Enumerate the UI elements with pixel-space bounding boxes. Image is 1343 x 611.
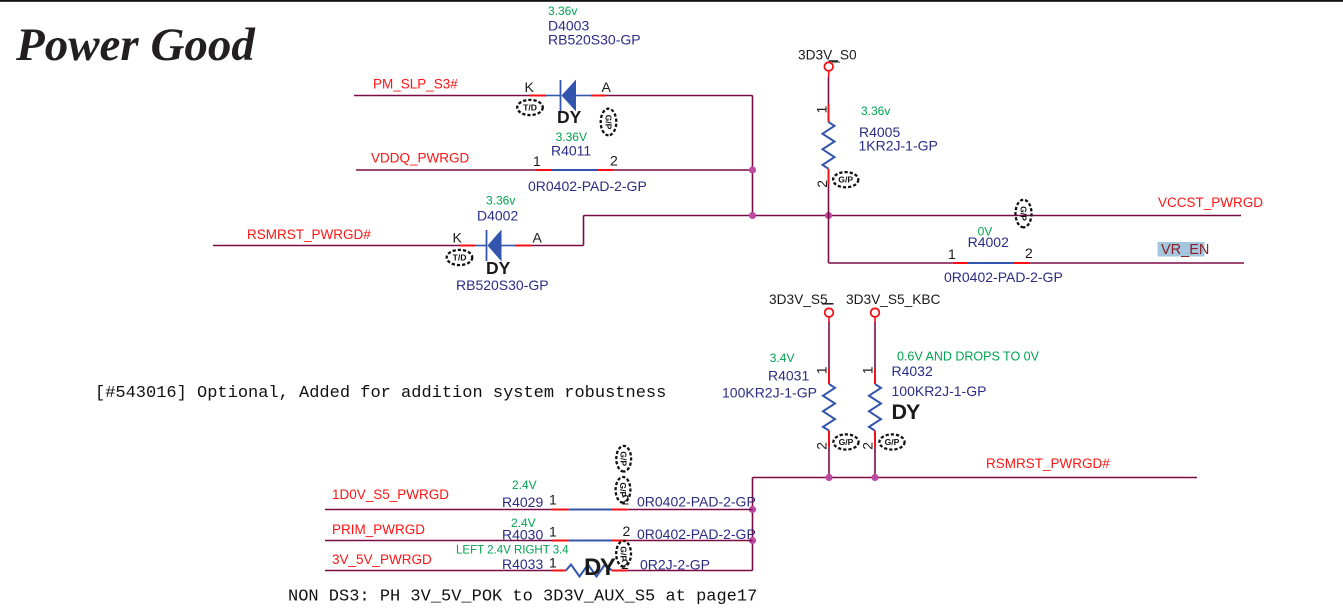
wire PRIM_PWRGD right [628,540,753,542]
svg-text:R4030: R4030 [502,527,543,543]
wire PM_SLP_S3# right segment [606,95,753,97]
wire VDDQ_PWRGD left segment [356,169,536,171]
diode D4002 [459,230,531,262]
svg-text:RB520S30-GP: RB520S30-GP [456,277,549,293]
resistor R4030 (0 ohm) [552,540,628,542]
svg-text:DY: DY [557,107,582,127]
svg-text:RSMRST_PWRGD#: RSMRST_PWRGD# [247,227,371,242]
svg-text:0.6V AND DROPS TO 0V: 0.6V AND DROPS TO 0V [897,350,1040,364]
svg-text:G/P: G/P [1019,206,1029,221]
svg-text:1: 1 [549,491,557,507]
svg-text:0R0402-PAD-2-GP: 0R0402-PAD-2-GP [637,526,756,542]
wire 1D0V_S5_PWRGD left [325,509,552,511]
resistor R4032 [869,369,881,447]
net label VR_EN highlighted [1158,242,1210,258]
svg-text:VCCST_PWRGD: VCCST_PWRGD [1158,195,1263,210]
svg-text:0R0402-PAD-2-GP: 0R0402-PAD-2-GP [528,178,647,194]
power symbol 3D3V_S5 [769,292,834,322]
svg-text:100KR2J-1-GP: 100KR2J-1-GP [892,383,987,399]
junction at VDDQ / vertical [749,166,756,173]
svg-text:100KR2J-1-GP: 100KR2J-1-GP [722,385,817,401]
svg-text:3V_5V_PWRGD: 3V_5V_PWRGD [332,552,432,567]
wire 1D0V_S5_PWRGD right [628,509,753,511]
resistor R4011 (0 ohm) [536,169,613,171]
svg-text:3D3V_S0: 3D3V_S0 [798,47,857,62]
svg-text:Power Good: Power Good [15,19,256,71]
wire VCCST_PWRGD horizontal [584,215,1242,217]
svg-text:G/P: G/P [619,451,629,466]
svg-text:3.36v: 3.36v [486,194,515,208]
svg-text:1: 1 [814,106,830,114]
svg-text:NON DS3: PH 3V_5V_POK to 3D3V_: NON DS3: PH 3V_5V_POK to 3D3V_AUX_S5 at … [288,588,757,607]
power symbol 3D3V_S5_KBC [846,292,940,322]
svg-text:1: 1 [860,366,876,374]
diode D4003 [530,80,606,112]
wire R4031 pin2 down to RSMRST node [828,447,830,478]
svg-text:1: 1 [533,153,541,169]
svg-text:2: 2 [860,442,876,450]
svg-text:G/P: G/P [838,175,853,185]
svg-text:3D3V_S5_KBC: 3D3V_S5_KBC [846,292,940,307]
junction at x=828 on VCCST wire [825,212,832,219]
svg-text:G/P: G/P [618,482,628,497]
resistor R4031 [823,369,835,447]
svg-text:T/D: T/D [523,103,537,113]
svg-text:0R2J-2-GP: 0R2J-2-GP [640,557,710,573]
resistor R4029 (0 ohm) [552,509,628,511]
svg-text:G/P: G/P [604,115,614,130]
wire VDDQ_PWRGD right segment [613,169,753,171]
svg-text:RSMRST_PWRGD#: RSMRST_PWRGD# [986,456,1110,471]
svg-text:2: 2 [1025,245,1033,261]
wire RSMRST_PWRGD# right segment [531,245,584,247]
wire RSMRST_PWRGD# bottom horizontal [753,477,1198,479]
svg-text:T/D: T/D [453,253,467,263]
junction R4032 / RSMRST [871,474,878,481]
svg-text:3D3V_S5: 3D3V_S5 [769,292,828,307]
svg-text:3.36v: 3.36v [861,104,890,118]
marker G/P at R4005 [833,172,858,187]
wire vertical from PM_SLP_S3# to VCCST node [752,96,754,216]
junction row2 / bus [749,537,756,544]
marker G/P at R4031 [833,434,858,449]
power symbol 3D3V_S0 [798,47,857,76]
wire R4032 pin2 down to RSMRST node [874,447,876,478]
svg-text:R4002: R4002 [968,234,1009,250]
svg-text:DY: DY [892,400,921,424]
svg-text:2: 2 [814,442,830,450]
wire 3V_5V_PWRGD right [628,570,753,572]
svg-text:1D0V_S5_PWRGD: 1D0V_S5_PWRGD [332,487,449,502]
wire 3D3V_S5 to R4031 [828,322,830,369]
resistor R4033 [552,565,628,577]
wire PM_SLP_S3# left segment [354,95,530,97]
wire vertical from VCCST node down to VR_EN wire [828,216,830,264]
junction row1 / bus [749,506,756,513]
svg-text:G/P: G/P [839,437,854,447]
svg-text:A: A [533,230,543,246]
svg-text:K: K [453,230,463,246]
svg-text:G/P: G/P [619,546,629,561]
svg-text:LEFT 2.4V RIGHT 3.4: LEFT 2.4V RIGHT 3.4 [456,545,569,557]
wire vertical bus at x=752 bottom [752,478,754,571]
marker G/P vertical on VCCST wire [1016,200,1032,228]
junction R4031 / RSMRST [825,474,832,481]
svg-text:R4032: R4032 [892,363,933,379]
svg-text:DY: DY [584,554,616,581]
wire 3D3V_S0 to R4005 [828,77,830,105]
svg-text:VDDQ_PWRGD: VDDQ_PWRGD [371,151,470,166]
svg-text:1: 1 [948,246,956,262]
marker G/P at R4032 [879,434,904,449]
svg-text:1KR2J-1-GP: 1KR2J-1-GP [859,138,938,154]
svg-text:[#543016] Optional, Added for: [#543016] Optional, Added for addition s… [95,384,666,403]
wire RSMRST_PWRGD# left segment [213,245,459,247]
svg-text:D4002: D4002 [477,207,518,223]
marker G/P vertical above R4029 pin2 upper [616,446,631,472]
svg-text:R4031: R4031 [768,368,809,384]
svg-text:2: 2 [814,180,830,188]
marker G/P vertical above R4029 pin2 lower [616,477,631,503]
marker T/D at D4002 [447,250,473,265]
svg-text:G/P: G/P [885,437,900,447]
svg-text:RB520S30-GP: RB520S30-GP [548,32,641,48]
svg-text:0R0402-PAD-2-GP: 0R0402-PAD-2-GP [944,269,1063,285]
svg-text:2.4V: 2.4V [512,478,537,492]
wire VR_EN left segment [829,262,953,264]
svg-text:2: 2 [610,153,618,169]
wire R4005 pin2 down to VCCST node [828,185,830,216]
svg-text:1: 1 [814,366,830,374]
wire PRIM_PWRGD left [325,540,552,542]
marker G/P vertical above R4033 pin2 [616,541,631,567]
wire 3V_5V_PWRGD left [325,570,552,572]
svg-text:2: 2 [623,523,631,539]
svg-text:PRIM_PWRGD: PRIM_PWRGD [332,522,425,537]
svg-text:PM_SLP_S3#: PM_SLP_S3# [373,77,458,92]
svg-text:0R0402-PAD-2-GP: 0R0402-PAD-2-GP [637,494,756,510]
svg-text:DY: DY [486,258,511,278]
svg-text:A: A [602,79,612,95]
svg-text:VR_EN: VR_EN [1161,242,1209,258]
wire vertical jog at x=583 [583,216,585,246]
svg-text:3.4V: 3.4V [770,351,795,365]
resistor R4002 (0 ohm) [953,262,1029,264]
marker T/D at D4003 [517,100,543,115]
svg-text:K: K [525,79,535,95]
wire 3D3V_S5_KBC to R4032 [874,322,876,369]
wire VR_EN right segment [1029,262,1244,264]
svg-text:3.36v: 3.36v [548,4,577,18]
svg-text:1: 1 [549,524,557,540]
junction at x=752 on VCCST wire [749,212,756,219]
marker G/P vertical at D4003 anode [601,109,617,136]
resistor R4005 [823,104,835,185]
svg-text:R4011: R4011 [551,142,591,158]
svg-text:R4029: R4029 [502,494,543,510]
svg-text:R4033: R4033 [502,556,543,572]
